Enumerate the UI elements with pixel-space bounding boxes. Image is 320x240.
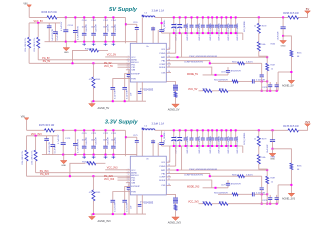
capacitor C154 input bank bbox=[112, 17, 114, 33]
capacitor C155 bootstrap bbox=[136, 24, 138, 27]
wire mode net bbox=[203, 74, 228, 76]
junction input rail / bulk cap bbox=[65, 16, 67, 18]
wire IC bottom stub PGND1 bbox=[136, 195, 138, 214]
svg-text:50V/X7R: 50V/X7R bbox=[107, 24, 109, 32]
power flag VIN (3V3 section) bbox=[24, 118, 28, 120]
capacitor C169 VCC decoupling bbox=[46, 136, 48, 139]
resistor R183 comp bbox=[210, 175, 238, 177]
capacitor C174 input bank bbox=[112, 130, 114, 146]
wire input rail from VIN to resistor R176 bbox=[27, 129, 45, 131]
svg-text:R178 30.5 1W: R178 30.5 1W bbox=[283, 125, 299, 128]
wire IC bottom stub PGND2 bbox=[141, 195, 143, 214]
svg-text:100k 1W/10 5%: 100k 1W/10 5% bbox=[34, 38, 36, 52]
svg-text:VCC_3V3: VCC_3V3 bbox=[107, 167, 118, 170]
svg-text:47k: 47k bbox=[89, 79, 92, 81]
svg-text:5V Supply: 5V Supply bbox=[109, 7, 138, 13]
svg-text:50V/X7R: 50V/X7R bbox=[86, 24, 88, 32]
svg-text:R176 30.5 1W: R176 30.5 1W bbox=[39, 124, 55, 127]
ground AGND_5V (right) bbox=[288, 80, 294, 83]
capacitor C147 on PGND stub bbox=[138, 92, 142, 94]
wire inductor to output rail bbox=[155, 129, 162, 131]
wire VIN down to input rail bbox=[28, 7, 30, 18]
svg-text:X5R/1210: X5R/1210 bbox=[228, 32, 230, 40]
capacitor C186 bbox=[269, 203, 271, 205]
svg-text:Vin: Vin bbox=[146, 46, 149, 48]
svg-text:EXTSKIP: EXTSKIP bbox=[131, 73, 140, 75]
wire boot feed bbox=[126, 23, 137, 25]
svg-text:AGND_3V3: AGND_3V3 bbox=[98, 220, 112, 223]
op-amp-style IC U5 TPS54383 dual buck converter bbox=[130, 43, 166, 82]
svg-text:R156 30.5 1W: R156 30.5 1W bbox=[42, 11, 58, 14]
power flag VIN (5V section) bbox=[27, 5, 31, 7]
svg-text:5V0_SENSE+: 5V0_SENSE+ bbox=[164, 19, 166, 32]
svg-text:X5R/1210: X5R/1210 bbox=[237, 145, 239, 153]
capacitor output bank col 10 bbox=[221, 17, 223, 25]
capacitor C180 comp series bbox=[238, 193, 252, 195]
wire PGND returns to IC bbox=[169, 33, 171, 49]
capacitor output bank col 3 bbox=[185, 130, 187, 138]
svg-text:CSS: CSS bbox=[161, 72, 166, 74]
svg-text:C150: C150 bbox=[82, 20, 88, 22]
capacitor output bank col 1 bbox=[173, 130, 175, 138]
svg-text:22uF/6.3V: 22uF/6.3V bbox=[187, 22, 189, 31]
svg-text:MODE_5V: MODE_5V bbox=[187, 74, 198, 76]
svg-text:0E: 0E bbox=[297, 56, 300, 58]
wire output to flag bbox=[298, 11, 307, 18]
junction AGND tie / divider bbox=[92, 175, 94, 177]
ground AGND_5V (snubber) bbox=[172, 104, 179, 107]
capacitor output bank col 5 bbox=[196, 130, 198, 138]
wire IC left pin stubs bbox=[126, 169, 130, 171]
junction AGND tie / 0R bbox=[72, 62, 74, 64]
capacitor output bank col 5 bbox=[196, 17, 198, 25]
svg-text:1nF: 1nF bbox=[131, 205, 133, 209]
wire VCC row to right bbox=[228, 90, 278, 92]
svg-text:3.3uH 1.1A: 3.3uH 1.1A bbox=[152, 122, 165, 125]
junction output cap / gnd bbox=[272, 148, 274, 150]
capacitor C181 bbox=[260, 188, 264, 190]
svg-text:C172: C172 bbox=[103, 133, 109, 135]
capacitor C159 comp bbox=[227, 73, 229, 75]
resistor R161 47k bbox=[92, 63, 94, 77]
svg-text:ILIM: ILIM bbox=[131, 70, 135, 72]
svg-text:R179: R179 bbox=[262, 139, 267, 141]
ground AGND_3V3 (snubber) bbox=[172, 217, 179, 220]
wire comp vert 1 bbox=[261, 176, 263, 187]
svg-text:3V30_SENSE+: 3V30_SENSE+ bbox=[164, 131, 166, 145]
svg-text:4.7uF/50V/X7R: 4.7uF/50V/X7R bbox=[78, 26, 80, 40]
svg-text:GND: GND bbox=[64, 52, 69, 54]
svg-text:PG_3V3: PG_3V3 bbox=[40, 174, 49, 176]
svg-text:AGND_5V: AGND_5V bbox=[168, 108, 180, 111]
svg-text:3: 3 bbox=[128, 61, 129, 63]
capacitor C150 input bank bbox=[83, 17, 85, 33]
capacitor output bank col 6 bbox=[202, 130, 204, 138]
svg-text:GND: GND bbox=[61, 165, 66, 167]
wire mode net bbox=[203, 187, 228, 189]
junction output cap / gnd bbox=[282, 35, 284, 37]
svg-text:MODE: MODE bbox=[159, 180, 166, 182]
svg-text:3: 3 bbox=[128, 174, 129, 176]
capacitor C185 output sense bbox=[161, 130, 163, 142]
svg-text:3.3k/1%: 3.3k/1% bbox=[246, 175, 253, 177]
resistor R162 0R gnd tie bbox=[73, 50, 89, 63]
capacitor output bank col 8 bbox=[211, 130, 213, 138]
junction output rail / cap bbox=[272, 129, 274, 131]
net label 3V30_SENSE- bbox=[242, 146, 244, 153]
svg-text:AGND_3V3: AGND_3V3 bbox=[168, 221, 182, 224]
wire comp return horiz bbox=[278, 184, 291, 186]
wire PGND returns to IC bbox=[169, 146, 171, 162]
svg-text:AGND: AGND bbox=[131, 172, 137, 175]
svg-text:R165: R165 bbox=[297, 52, 302, 54]
svg-text:R167: R167 bbox=[271, 65, 276, 67]
svg-text:22uF/6.3V: 22uF/6.3V bbox=[237, 22, 239, 31]
wire input ground rail bbox=[42, 154, 137, 156]
svg-text:R183: R183 bbox=[232, 174, 237, 176]
power flag 5V bbox=[305, 11, 311, 14]
capacitor C152 input bank bbox=[105, 17, 107, 33]
svg-text:R163: R163 bbox=[232, 61, 237, 63]
svg-text:C159: C159 bbox=[221, 72, 226, 74]
svg-text:100k: 100k bbox=[261, 44, 265, 46]
capacitor C179 bootstrap 2 bbox=[152, 139, 154, 156]
svg-text:PG_5V: PG_5V bbox=[43, 61, 51, 63]
svg-text:VIN: VIN bbox=[21, 116, 25, 119]
wire FSW pin to soft-start cap bbox=[113, 78, 131, 80]
wire IC bottom stub PGND2 bbox=[141, 82, 143, 101]
svg-text:X5R/1210: X5R/1210 bbox=[187, 145, 189, 153]
svg-text:VIN: VIN bbox=[23, 3, 27, 6]
svg-text:10uF/X5R: 10uF/X5R bbox=[278, 31, 280, 40]
svg-text:C152: C152 bbox=[103, 20, 109, 22]
svg-text:FSW: FSW bbox=[131, 191, 136, 193]
svg-text:100k 1W/10 5%: 100k 1W/10 5% bbox=[22, 151, 24, 165]
junction agnd rail bbox=[92, 100, 94, 102]
capacitor output bank col 8 bbox=[211, 17, 213, 25]
capacitor C149 VCC decoupling bbox=[48, 23, 50, 26]
ground GND (input) bbox=[63, 155, 65, 161]
wire VCC subrail bbox=[29, 22, 60, 24]
wire IC right stub pin COMP bbox=[166, 176, 171, 178]
capacitor output bank col 12 bbox=[230, 130, 232, 138]
svg-text:3.3V Supply: 3.3V Supply bbox=[105, 119, 139, 125]
resistor R171 100k pull-up bbox=[35, 136, 37, 150]
wire AGND tie rail to IC bbox=[29, 62, 130, 64]
capacitor C175 bootstrap bbox=[136, 137, 138, 140]
capacitor C151 input bank bbox=[93, 17, 95, 33]
svg-text:L5: L5 bbox=[145, 13, 148, 15]
svg-text:8: 8 bbox=[128, 190, 129, 192]
svg-text:R160: R160 bbox=[271, 43, 276, 45]
ground GND (input) bbox=[65, 42, 67, 48]
svg-text:GND: GND bbox=[270, 159, 275, 161]
svg-text:GND: GND bbox=[281, 46, 286, 48]
svg-text:X5R/1210: X5R/1210 bbox=[218, 32, 220, 40]
capacitor C187 bbox=[276, 203, 278, 205]
wire boot feed bbox=[126, 136, 137, 138]
wire input ground rail bbox=[45, 41, 137, 43]
svg-text:R180: R180 bbox=[271, 156, 276, 158]
svg-text:100k 1W/10 5%: 100k 1W/10 5% bbox=[31, 151, 33, 165]
capacitor output bank col 10 bbox=[221, 130, 223, 138]
svg-text:C/X7R: C/X7R bbox=[262, 87, 268, 89]
svg-text:R161: R161 bbox=[96, 79, 102, 81]
capacitor output bank col 1 bbox=[173, 17, 175, 25]
svg-text:R158 30.5 1W: R158 30.5 1W bbox=[283, 12, 299, 15]
capacitor C168 input filter bbox=[74, 130, 76, 143]
resistor divider R180 100k lower bbox=[258, 146, 260, 154]
wire divider to FB row bbox=[259, 51, 267, 57]
wire input rail to IC area bbox=[54, 129, 125, 131]
svg-text:PSW_GND/SUM GND/SUM: PSW_GND/SUM GND/SUM bbox=[189, 169, 217, 171]
wire COMP row bbox=[166, 61, 210, 64]
svg-text:4E5DV/X7R: 4E5DV/X7R bbox=[231, 71, 242, 73]
svg-text:3.3k/1%: 3.3k/1% bbox=[246, 62, 253, 64]
capacitor C178 ILIM bbox=[129, 183, 130, 187]
svg-text:100k: 100k bbox=[261, 157, 265, 159]
svg-text:C170: C170 bbox=[82, 133, 88, 135]
power flag 3V3 bbox=[305, 124, 311, 127]
svg-text:4.7uF/50V: 4.7uF/50V bbox=[61, 21, 63, 31]
svg-text:C/X7R: C/X7R bbox=[262, 200, 268, 202]
svg-text:R181: R181 bbox=[96, 192, 102, 194]
resistor R163 comp bbox=[210, 62, 238, 64]
svg-text:CSS: CSS bbox=[161, 185, 166, 187]
svg-text:22uF/6.3V: 22uF/6.3V bbox=[199, 135, 201, 144]
wire to IC EN pin bbox=[118, 64, 131, 66]
resistor divider R179 1k upper bbox=[258, 129, 260, 131]
capacitor C148 input filter bbox=[74, 17, 76, 30]
capacitor output bank col 11 bbox=[225, 130, 227, 138]
svg-text:3V3: 3V3 bbox=[305, 120, 310, 124]
svg-text:EXTSKIP: EXTSKIP bbox=[131, 186, 140, 188]
wire output rail bbox=[162, 129, 288, 131]
svg-text:PG_3V3: PG_3V3 bbox=[104, 176, 113, 178]
wire MODE row bbox=[166, 67, 212, 75]
junction VCC subrail bbox=[35, 135, 37, 137]
wire output bank ground rail bbox=[162, 32, 243, 34]
svg-text:MODE_3V3: MODE_3V3 bbox=[187, 187, 200, 189]
svg-text:X5R/1210: X5R/1210 bbox=[237, 32, 239, 40]
capacitor C157 mode bbox=[124, 74, 126, 87]
svg-text:VCC_5V: VCC_5V bbox=[188, 88, 198, 91]
wire analog ground rail bbox=[91, 213, 146, 215]
svg-text:X5R/1210: X5R/1210 bbox=[218, 145, 220, 153]
svg-text:VCC_5V: VCC_5V bbox=[104, 66, 113, 68]
wire input rail to IC area bbox=[57, 16, 125, 18]
svg-text:X5R/1210: X5R/1210 bbox=[187, 32, 189, 40]
wire comp return horiz bbox=[278, 71, 291, 73]
svg-text:COMP MODE/SYN: COMP MODE/SYN bbox=[184, 62, 203, 64]
svg-text:AGND_5V: AGND_5V bbox=[282, 85, 294, 88]
resistor R165 0E bbox=[283, 36, 291, 50]
wire VIN down to input rail bbox=[26, 120, 28, 131]
IC right pin numbers bbox=[168, 161, 170, 186]
wire output rail bbox=[162, 16, 288, 18]
wire VCC row to right bbox=[228, 203, 278, 205]
svg-text:C173: C173 bbox=[65, 138, 71, 140]
wire VCC subrail bbox=[27, 135, 58, 137]
capacitor output bank col 7 bbox=[207, 17, 209, 25]
capacitor output bank col 2 bbox=[179, 130, 181, 138]
wire output to flag bbox=[298, 124, 307, 131]
svg-text:0.1uF/X7R: 0.1uF/X7R bbox=[114, 202, 116, 212]
junction gnd rail at input filter cap bbox=[74, 41, 76, 43]
wire divider to FB row bbox=[259, 164, 267, 170]
svg-text:R187: R187 bbox=[271, 177, 276, 179]
capacitor C183 output bbox=[272, 130, 274, 139]
resistor R151 100k pull-up bbox=[37, 23, 39, 37]
svg-text:100k 1W/10 5%: 100k 1W/10 5% bbox=[25, 38, 27, 52]
wire IC right stub pin CSS bbox=[166, 72, 171, 74]
junction boot feed bbox=[125, 136, 127, 138]
capacitor C158 ILIM bbox=[129, 70, 130, 74]
svg-text:1k: 1k bbox=[254, 139, 256, 141]
wire comp return vert bbox=[277, 185, 279, 204]
svg-text:0.1uF/X7R: 0.1uF/X7R bbox=[126, 202, 128, 212]
svg-text:C171: C171 bbox=[91, 133, 97, 135]
svg-text:PG_5V: PG_5V bbox=[104, 63, 112, 65]
wire AGND tie rail to IC bbox=[27, 175, 131, 177]
svg-text:VCC_3V3: VCC_3V3 bbox=[188, 201, 199, 204]
svg-text:R182 0R: R182 0R bbox=[82, 162, 91, 164]
svg-text:R162 0R: R162 0R bbox=[85, 49, 94, 51]
svg-text:4E5DV/X7R: 4E5DV/X7R bbox=[231, 184, 242, 186]
capacitor C176 soft-start bbox=[112, 192, 114, 200]
capacitor C179 comp bbox=[227, 185, 229, 187]
capacitor C160 comp series bbox=[238, 80, 252, 82]
capacitor output bank col 9 bbox=[216, 17, 218, 25]
svg-text:5V: 5V bbox=[306, 7, 310, 11]
capacitor C165 output sense bbox=[161, 17, 163, 29]
svg-text:1k: 1k bbox=[254, 26, 256, 28]
wire VCC to IC pin bbox=[105, 56, 130, 58]
wire SW2 stub bbox=[157, 143, 159, 156]
svg-text:MODE: MODE bbox=[159, 67, 166, 69]
capacitor C146 VCC decoupling 2 bbox=[54, 23, 56, 32]
capacitor output bank col 9 bbox=[216, 130, 218, 138]
svg-text:3V30_SENSE-: 3V30_SENSE- bbox=[244, 132, 246, 145]
capacitor output bank col 13 bbox=[235, 17, 237, 25]
svg-text:R159: R159 bbox=[262, 26, 267, 28]
wire output bank ground rail bbox=[162, 145, 243, 147]
capacitor C156 soft-start bbox=[112, 79, 114, 87]
wire SW1 to inductor bbox=[141, 130, 143, 156]
svg-text:7: 7 bbox=[128, 72, 129, 74]
wire IC right stub pin CSS bbox=[166, 184, 171, 186]
resistor R181 47k bbox=[92, 176, 94, 190]
svg-text:22uF/6.3V: 22uF/6.3V bbox=[175, 22, 177, 31]
svg-text:8: 8 bbox=[128, 77, 129, 79]
junction 0E / comp return bbox=[290, 71, 292, 73]
capacitor C167 bbox=[276, 90, 278, 92]
capacitor C177 mode bbox=[124, 187, 126, 200]
svg-text:4.7uF/50V: 4.7uF/50V bbox=[58, 134, 60, 144]
snubber R C R157 C164 bbox=[166, 82, 175, 85]
capacitor C171 input bank bbox=[93, 130, 95, 146]
resistor R182 0R gnd tie bbox=[70, 163, 86, 176]
capacitor output bank col 3 bbox=[185, 17, 187, 25]
IC left pin numbers bbox=[128, 169, 129, 192]
svg-text:AGND: AGND bbox=[131, 59, 137, 62]
svg-text:VCC_3V3: VCC_3V3 bbox=[104, 179, 115, 181]
ground AGND_5V (left) bbox=[91, 101, 93, 103]
wire FB row bbox=[166, 169, 267, 171]
svg-text:L6: L6 bbox=[145, 126, 148, 128]
junction VCC subrail bbox=[37, 22, 39, 24]
svg-text:COMP MODE/SYN: COMP MODE/SYN bbox=[184, 175, 203, 177]
capacitor C172 input bank bbox=[105, 130, 107, 146]
wire PG_3V3 to IC bbox=[36, 172, 131, 174]
resistor R185 0E bbox=[273, 149, 292, 163]
wire VIN rail drop to IC bbox=[124, 130, 126, 156]
capacitor output bank col 12 bbox=[230, 17, 232, 25]
junction gnd rail at bulk cap bbox=[62, 154, 64, 156]
resistor R176 30.5 1W (series input) bbox=[44, 129, 54, 132]
capacitor C173 input bulk bbox=[62, 130, 64, 142]
IC right pin numbers bbox=[168, 48, 170, 73]
svg-text:3.3uH 1.1A: 3.3uH 1.1A bbox=[152, 9, 165, 12]
svg-text:C154: C154 bbox=[111, 20, 117, 22]
net label 5V0_SENSE- bbox=[242, 33, 244, 40]
wire COMP row bbox=[166, 174, 210, 177]
svg-text:1uF/16V/X7R: 1uF/16V/X7R bbox=[52, 28, 54, 41]
resistor R170 100k pull-up bbox=[26, 136, 28, 150]
wire comp vert 1 bbox=[261, 63, 263, 74]
junction AGND tie / 0R bbox=[69, 175, 71, 177]
IC left pin numbers bbox=[128, 56, 129, 79]
wire MODE row bbox=[166, 180, 212, 188]
svg-text:50V/X7R: 50V/X7R bbox=[95, 24, 97, 32]
capacitor C153 input bulk bbox=[65, 17, 67, 29]
svg-text:22uF/6.3V: 22uF/6.3V bbox=[199, 22, 201, 31]
junction agnd rail bbox=[92, 213, 94, 215]
wire PG_5V to IC bbox=[38, 59, 130, 61]
svg-text:0.1uF/X7R: 0.1uF/X7R bbox=[114, 89, 116, 99]
svg-text:10uF/X5R: 10uF/X5R bbox=[267, 144, 269, 153]
capacitor C166b VCC decoupling 2 bbox=[52, 136, 54, 145]
inductor L6 3.3uH bbox=[143, 129, 155, 130]
inductor L5 3.3uH bbox=[143, 16, 155, 17]
svg-text:COMP: COMP bbox=[159, 64, 166, 66]
junction gnd rail at input filter cap bbox=[74, 154, 76, 156]
ground GND (output) bbox=[282, 36, 284, 40]
wire IC right stub pin COMP bbox=[166, 63, 171, 65]
svg-text:22uF/6.3V: 22uF/6.3V bbox=[187, 135, 189, 144]
svg-text:X5R/1210: X5R/1210 bbox=[199, 145, 201, 153]
svg-text:R185: R185 bbox=[297, 165, 302, 167]
resistor R187 divider bbox=[266, 169, 268, 171]
resistor divider R159 1k upper bbox=[258, 16, 260, 18]
ground GND (output) bbox=[272, 149, 274, 153]
svg-text:Vin: Vin bbox=[146, 159, 149, 161]
wire to IC pin 5 bbox=[118, 66, 131, 68]
capacitor output bank col 13 bbox=[235, 130, 237, 138]
wire to IC pin 5 bbox=[118, 179, 131, 181]
junction 0E / comp return bbox=[290, 184, 292, 186]
svg-text:50V/X7R: 50V/X7R bbox=[86, 136, 88, 144]
svg-text:C155: C155 bbox=[133, 22, 138, 24]
wire FSW pin to soft-start cap bbox=[113, 191, 131, 193]
svg-text:1k: 1k bbox=[271, 182, 273, 184]
capacitor output bank col 2 bbox=[179, 17, 181, 25]
svg-text:0.1uF/X7R: 0.1uF/X7R bbox=[57, 31, 59, 41]
svg-text:0E: 0E bbox=[297, 169, 300, 171]
capacitor C161 bbox=[260, 75, 264, 77]
op-amp-style IC U6 TPS54383 dual buck converter bbox=[130, 156, 166, 195]
wire inductor to output rail bbox=[155, 16, 162, 18]
